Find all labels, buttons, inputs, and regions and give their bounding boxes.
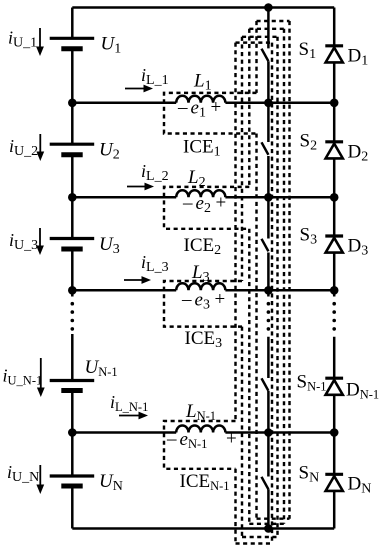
svg-text:–: – [177, 97, 188, 118]
svg-text:+: + [211, 97, 222, 118]
svg-text:–: – [181, 289, 192, 310]
svg-text:–: – [166, 429, 177, 450]
svg-text:+: + [216, 193, 227, 214]
svg-text:–: – [182, 193, 193, 214]
svg-text:+: + [215, 289, 226, 310]
svg-text:+: + [226, 429, 237, 450]
